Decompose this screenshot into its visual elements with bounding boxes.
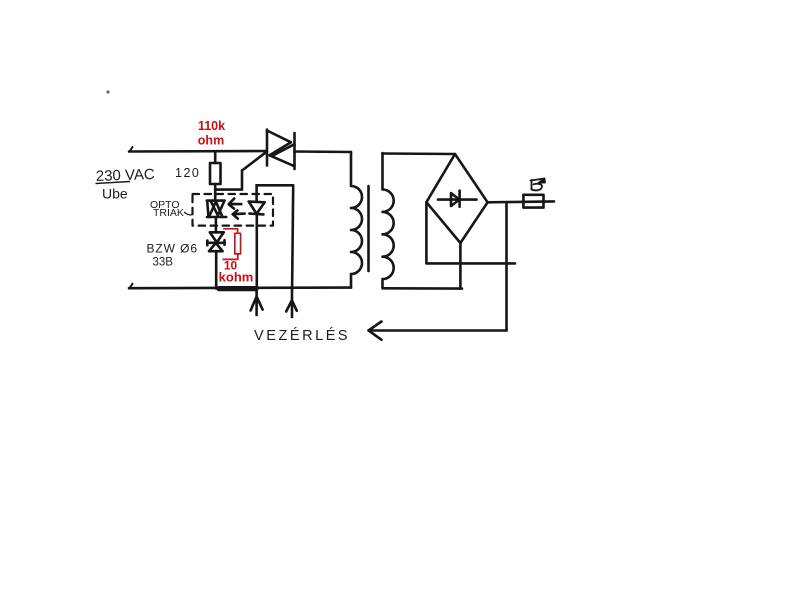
label: node B <box>531 179 546 191</box>
value label: 10 kohm (red) <box>219 259 254 285</box>
control input arrow 1 <box>251 289 263 315</box>
wire: bridge plus output to fuse <box>488 200 554 204</box>
svg-text:kohm: kohm <box>219 270 254 285</box>
opto-triac U1 dashed outline <box>193 194 274 226</box>
svg-text:BZW Ø6: BZW Ø6 <box>147 242 198 256</box>
node: left AC terminal bottom <box>130 284 133 289</box>
wire: triac gate lead <box>216 152 267 190</box>
opto-triac U1 output triac <box>207 201 226 233</box>
wire: top AC line to triac <box>129 150 266 153</box>
transformer T1 primary winding <box>351 152 362 288</box>
resistor R1 120 <box>210 152 221 201</box>
control input arrow 2 <box>286 290 297 318</box>
resistor R2 10 kohm (red) <box>223 229 241 260</box>
opto coupling arrow lower <box>233 210 245 218</box>
opto-triac U1 input LED <box>249 185 265 289</box>
wire: secondary top to bridge <box>383 152 455 155</box>
wire: LED anode loop over to right drop <box>257 185 294 289</box>
svg-text:Ube: Ube <box>102 186 128 202</box>
svg-text:ohm: ohm <box>198 134 224 148</box>
opto coupling arrow upper <box>229 198 242 208</box>
wire: control feedback arrow (points left) <box>371 329 507 332</box>
transformer T1 secondary winding <box>383 153 394 288</box>
wire: triac to transformer primary top <box>295 150 352 153</box>
transformer T1 core <box>367 186 370 271</box>
label underline <box>96 182 131 184</box>
value label: 110k ohm (red) <box>198 119 225 148</box>
wire: secondary bottom to bridge bottom <box>383 287 463 290</box>
svg-text:VEZÉRLÉS: VEZÉRLÉS <box>254 327 350 344</box>
wire: bridge bottom vertex to secondary return <box>459 243 462 289</box>
node: left AC terminal top <box>130 147 133 152</box>
fuse F1 <box>523 195 543 208</box>
wire: bottom AC line <box>129 286 351 289</box>
svg-text:120: 120 <box>175 166 200 180</box>
svg-text:110k: 110k <box>198 119 225 133</box>
bridge rectifier BR1 <box>426 154 487 243</box>
wire: bridge minus down and right stub <box>426 203 515 264</box>
wire: thick overdrawn segment of bottom line <box>219 286 256 291</box>
wire: DC output down to control arrow line <box>505 202 508 331</box>
svg-text:TRIAK: TRIAK <box>153 207 184 219</box>
triac Q1 <box>267 130 295 170</box>
svg-text:33B: 33B <box>153 257 174 269</box>
stray dot mark <box>106 90 109 93</box>
TVS diode D1 BZW06-33B <box>207 232 225 288</box>
